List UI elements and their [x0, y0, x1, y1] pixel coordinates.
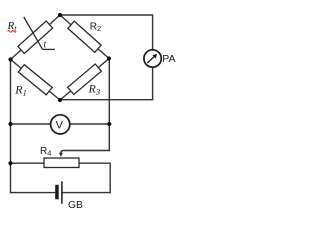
node right vertex: [107, 56, 111, 60]
resistor R4 body: [44, 158, 79, 168]
svg-text:R4: R4: [40, 146, 51, 158]
wire arm bottom-left: [11, 60, 61, 101]
wire R4 left: [11, 162, 45, 164]
node V line right: [107, 122, 111, 126]
node bottom vertex: [58, 98, 62, 102]
resistor R3 body: [68, 64, 102, 95]
thermistor mark line: [24, 17, 55, 49]
wire top: top vertex to PA top: [60, 15, 153, 50]
wire left branch down: [11, 60, 56, 193]
node left vertex: [8, 57, 12, 61]
wire voltmeter line: [11, 123, 110, 125]
resistor R2 body: [68, 21, 101, 52]
wire right vertical + wiper: [61, 59, 109, 154]
resistor Rt body: [18, 21, 53, 54]
svg-text:R2: R2: [90, 22, 101, 34]
svg-text:PA: PA: [162, 53, 175, 65]
node top vertex: [58, 13, 62, 17]
svg-text:V: V: [56, 119, 64, 131]
voltmeter V circle: [51, 115, 70, 134]
battery GB thick plate: [55, 185, 59, 200]
wire PA bottom to bottom-vertex wire: [60, 67, 153, 100]
spellcheck squiggle under Rt: [8, 30, 16, 32]
wire arm bottom-right: [60, 59, 109, 101]
ammeter PA circle: [144, 50, 161, 67]
svg-text:GB: GB: [68, 200, 83, 211]
wire R4 right loop to battery: [62, 163, 110, 192]
PA needle arrow: [147, 56, 154, 63]
node R4 left: [8, 161, 12, 165]
arrowhead wiper onto R4: [59, 153, 63, 157]
resistor R1 body: [18, 65, 52, 95]
node V line left: [8, 122, 12, 126]
svg-text:t: t: [44, 40, 47, 51]
battery GB thin plate: [61, 181, 63, 204]
wire arm top-right: [60, 15, 109, 59]
wire arm top-left: [11, 15, 61, 60]
svg-text:R3: R3: [88, 82, 101, 97]
svg-text:R1: R1: [14, 83, 27, 98]
